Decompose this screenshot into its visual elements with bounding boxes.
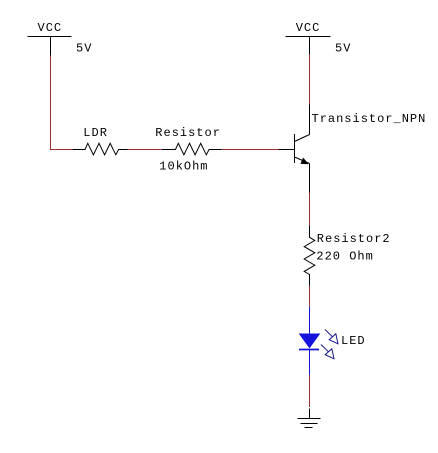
LED light arrow 2	[321, 345, 334, 359]
wire Resistor to transistor base	[221, 149, 279, 151]
svg-text:Resistor: Resistor	[155, 126, 221, 140]
wire LED to ground	[309, 375, 311, 407]
wire LDR to Resistor	[128, 149, 163, 151]
resistor Resistor2 220 Ohm (vertical)	[304, 226, 390, 286]
wire emitter to Resistor2	[309, 193, 311, 227]
ground GND	[298, 409, 321, 428]
svg-text:LED: LED	[341, 334, 366, 348]
resistor LDR	[73, 126, 128, 155]
svg-text:VCC: VCC	[38, 21, 63, 35]
svg-text:5V: 5V	[335, 42, 351, 56]
wire Resistor2 to LED	[309, 286, 311, 308]
svg-text:10kOhm: 10kOhm	[159, 159, 208, 173]
power VCC2 (right)	[286, 21, 352, 56]
resistor Resistor 10kOhm	[155, 126, 221, 173]
LED D1	[299, 307, 366, 375]
svg-text:5V: 5V	[76, 42, 92, 56]
svg-text:Resistor2: Resistor2	[317, 232, 391, 246]
svg-text:LDR: LDR	[83, 126, 108, 140]
wire VCC1 to LDR (corner)	[51, 56, 74, 150]
wire VCC2 to collector	[309, 54, 311, 105]
LED light arrow 1	[325, 330, 338, 344]
power VCC1 (left)	[28, 21, 93, 56]
svg-text:Transistor_NPN: Transistor_NPN	[312, 112, 427, 126]
svg-text:220 Ohm: 220 Ohm	[316, 250, 373, 264]
svg-text:VCC: VCC	[296, 21, 321, 35]
transistor Q1 Transistor_NPN	[279, 105, 427, 193]
